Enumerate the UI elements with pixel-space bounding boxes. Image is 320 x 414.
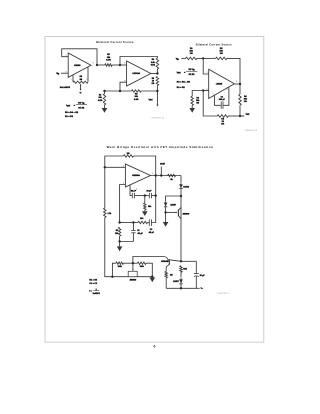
wire bottom rail right [141, 90, 157, 92]
capacitor C2 plates [150, 219, 152, 226]
wire R4 to IOUT node [239, 105, 241, 116]
svg-text:R1 R5: R1 R5 [189, 74, 196, 76]
svg-text:2: 2 [206, 72, 207, 74]
svg-text:1%: 1% [152, 83, 155, 85]
wire comp middle [135, 195, 149, 197]
svg-text:10M: 10M [183, 269, 187, 271]
wire left rail bottom [105, 218, 113, 277]
node A wein [132, 221, 134, 223]
wire wein bottom [120, 236, 134, 242]
resistor R3 to ground [191, 96, 194, 105]
node chain ground [151, 276, 153, 278]
svg-text:TL/H/7757–16: TL/H/7757–16 [245, 130, 259, 132]
balance pot R6 wires [72, 75, 74, 82]
arrow into pot box [132, 263, 134, 269]
svg-text:10 μF: 10 μF [200, 275, 206, 277]
wire node down to pin 2 [203, 58, 209, 74]
resistor R1 wein [118, 227, 121, 236]
ground arrow comp [142, 211, 148, 216]
svg-text:3: 3 [66, 72, 67, 74]
node inverting tap [104, 166, 106, 168]
wire VIN to A1 pin 3 [61, 72, 68, 74]
diode 1N457 clamp [164, 201, 168, 207]
svg-text:LM101A: LM101A [132, 72, 140, 75]
svg-text:TL/H/7757–17: TL/H/7757–17 [217, 293, 231, 295]
wire clamp diode to node [165, 207, 167, 212]
svg-text:C1 = C2: C1 = C2 [89, 283, 97, 285]
wire chain right corner [146, 263, 152, 277]
svg-text:1%: 1% [221, 124, 224, 126]
svg-text:100k: 100k [140, 266, 144, 268]
resistor 2k output [168, 174, 176, 177]
wire node to R2 [203, 57, 215, 59]
node bottom right [156, 90, 158, 92]
pot box 2N3819 [128, 271, 137, 276]
resistor 1M source [165, 272, 168, 278]
wire cap branch top [181, 260, 196, 262]
wire EOUT stub [160, 167, 162, 176]
wire to A2 pin 3 [120, 82, 127, 91]
svg-text:0.1%: 0.1% [106, 59, 111, 61]
svg-text:1N457: 1N457 [170, 204, 176, 207]
wire comp to output rail [152, 195, 156, 197]
svg-text:R3 = R4 + R5: R3 = R4 + R5 [65, 111, 79, 114]
node lower rectifier [180, 260, 182, 262]
resistor R2 wein [138, 221, 148, 224]
wire source resistor to rail [165, 278, 167, 289]
svg-text:.05 μF: .05 μF [137, 233, 143, 235]
svg-text:2N3819: 2N3819 [130, 279, 137, 281]
node chain middle [132, 262, 134, 264]
wire feedback loop A2 top [120, 57, 157, 66]
op-amp A4 LM108A [125, 164, 150, 187]
svg-text:8: 8 [136, 189, 137, 191]
svg-text:6: 6 [93, 62, 94, 64]
svg-text:6: 6 [152, 173, 153, 175]
wire gate of Q1 [166, 211, 177, 213]
arrow IOUT right [240, 115, 243, 117]
svg-text:1M: 1M [170, 275, 173, 277]
node non-inverting right [202, 89, 204, 91]
svg-text:R1 R5: R1 R5 [78, 107, 85, 109]
svg-text:1: 1 [71, 79, 72, 81]
wire R5 to bottom rail [156, 86, 158, 92]
wire R2 to right rail [227, 58, 240, 84]
node A2 inverting input [119, 64, 121, 66]
svg-text:C1: C1 [137, 230, 139, 232]
ground arrow chain [150, 277, 156, 282]
resistor R3 [105, 64, 112, 67]
wire wein series branch [152, 176, 156, 223]
node gate drive [164, 211, 166, 213]
wire IOUT down [156, 91, 158, 105]
wire bottom rail to R5 [228, 115, 240, 117]
svg-text:2: 2 [123, 166, 124, 168]
node comp middle [144, 194, 146, 196]
page border frame [45, 37, 264, 343]
resistor R5 output sense [156, 76, 159, 85]
svg-text:LM108: LM108 [74, 65, 81, 67]
svg-text:Wein Bridge Oscillator with FE: Wein Bridge Oscillator with FET Amplitud… [107, 145, 214, 149]
balance pot wiper arrow to V+ [80, 85, 82, 90]
ground arrow circuit2 [189, 108, 195, 113]
wire R2 to node A [133, 222, 138, 224]
svg-text:1%: 1% [244, 101, 247, 103]
node wein left [118, 221, 120, 223]
capacitor C1 wein branch [132, 223, 134, 231]
wire diode to V- rail [180, 284, 182, 289]
wire feedback loop A1 [62, 49, 97, 65]
transistor Q2 channel [168, 259, 170, 265]
node V- rail [180, 287, 182, 289]
svg-text:1M: 1M [79, 79, 82, 81]
wire gate node to ground [165, 212, 167, 222]
wire A3 output [234, 83, 240, 85]
svg-text:1%: 1% [196, 103, 199, 105]
resistor R4 feedback [156, 58, 159, 69]
wire R4 to output node [156, 69, 158, 74]
resistor 10k chain 1 [116, 262, 124, 265]
node EOUT tap [160, 174, 162, 176]
wire left rail middle [104, 167, 106, 208]
ground arrow wein [117, 246, 123, 251]
wire left rail top [105, 156, 124, 167]
svg-text:1N457: 1N457 [173, 280, 179, 283]
wire C2 to R2 [148, 222, 149, 224]
svg-text:30 pF: 30 pF [131, 191, 137, 193]
wire comp node to resistor [144, 196, 146, 203]
node IOUT [239, 115, 241, 117]
node R1 top [103, 90, 105, 92]
resistor 1.1k left rail [104, 208, 107, 218]
svg-text:.05 μF: .05 μF [148, 232, 154, 234]
wire V- rail [166, 287, 199, 289]
wire bottom rail left [203, 91, 217, 117]
wire R3 to A2 node [112, 64, 120, 66]
transistor Q1 2N3069 channel [177, 210, 179, 217]
capacitor comp 1 plates [130, 195, 132, 197]
wire chain middle [124, 262, 138, 264]
transistor Q1 leads [178, 207, 181, 210]
node wein ground [118, 240, 120, 242]
node non-inverting feedback [119, 90, 121, 92]
wire top to output rail [134, 156, 156, 176]
svg-text:TL/H/7757–15: TL/H/7757–15 [151, 117, 165, 119]
wire chain riser [112, 263, 116, 277]
wire R1 to node [197, 57, 203, 59]
op-amp A1 LM108 [68, 53, 91, 77]
wire 20k to ground [144, 210, 146, 211]
wire output to R4 [239, 84, 241, 94]
svg-text:Bilateral Current Source: Bilateral Current Source [96, 40, 134, 44]
node comp rail [155, 194, 157, 196]
wire rectifier branch left [166, 196, 181, 201]
resistor 10M [180, 266, 183, 273]
svg-text:R1: R1 [116, 230, 118, 232]
svg-text:2πR1C1: 2πR1C1 [93, 293, 100, 295]
node inverting input right [202, 57, 204, 59]
svg-text:C2: C2 [150, 229, 152, 231]
svg-text:6: 6 [154, 344, 156, 348]
wire bottom rail left [105, 90, 132, 92]
arrow IOUT [156, 105, 158, 107]
resistor R2 feedback [216, 57, 227, 60]
wire R1 to ground [104, 105, 106, 108]
svg-text:8: 8 [227, 89, 228, 91]
capacitor 10uF wires [195, 261, 197, 273]
compensation stub pin 1 [129, 185, 131, 196]
capacitor C1 plates [220, 101, 222, 108]
resistor 10k chain 2 [138, 262, 147, 265]
wire to pin 2 middle [105, 166, 126, 168]
svg-text:100k: 100k [118, 266, 122, 268]
wire A4 output [151, 175, 182, 177]
svg-text:1M: 1M [127, 153, 130, 155]
node A1 output [96, 64, 98, 66]
ground arrow circuit1 [102, 108, 108, 113]
transistor Q2 source lead [166, 264, 169, 271]
wire to pin 3 [203, 90, 209, 92]
diode 1N457 lower [179, 278, 183, 284]
op-amp A3 LM108 [209, 69, 235, 98]
wire R1 top stub [104, 91, 106, 94]
wire A1 out to R3 [97, 64, 105, 66]
wire node to A2 pin 2 [120, 64, 127, 66]
capacitor comp 2 plates [148, 193, 150, 198]
wire bottom chain [112, 276, 152, 278]
svg-text:0.1%: 0.1% [134, 99, 139, 101]
svg-text:6: 6 [236, 81, 237, 83]
node A2 output [156, 72, 158, 74]
svg-text:R1 = R2: R1 = R2 [65, 116, 74, 118]
capacitor C1 comp wires [214, 95, 221, 105]
svg-text:1%: 1% [190, 53, 193, 55]
wire to R3 [192, 91, 203, 97]
node rectifier [180, 195, 182, 197]
svg-text:2N3069: 2N3069 [161, 261, 168, 263]
resistor R1 input [186, 57, 197, 60]
svg-text:1%: 1% [220, 53, 223, 55]
capacitor 10uF plates [194, 273, 199, 275]
svg-text:R6: R6 [80, 76, 82, 78]
svg-text:R1 = R2: R1 = R2 [89, 280, 97, 282]
svg-text:2: 2 [66, 55, 67, 57]
svg-text:LM108: LM108 [216, 84, 223, 86]
resistor R5 bottom [217, 115, 228, 118]
wire wein node to ground [119, 242, 121, 247]
node chain junction [111, 276, 113, 278]
svg-text:1N456: 1N456 [183, 186, 189, 189]
resistor R4 output [239, 94, 242, 105]
svg-text:0.1%: 0.1% [151, 64, 156, 66]
wire pin 3 connection [120, 185, 126, 223]
op-amp A2 LM101A [127, 61, 151, 86]
svg-text:2: 2 [124, 63, 125, 65]
wire R3 to ground [191, 105, 193, 108]
wire node A to left [120, 222, 134, 224]
resistor 20k comp [144, 203, 147, 210]
diode 1N456 [179, 183, 183, 189]
svg-text:LM108A: LM108A [132, 174, 140, 177]
svg-text:Bilateral Current Source: Bilateral Current Source [196, 42, 232, 46]
wire main vertical to lower node [180, 196, 182, 261]
svg-text:2N3069: 2N3069 [183, 214, 190, 216]
node A3 output [239, 83, 241, 85]
resistor R2 bottom [132, 90, 142, 93]
node output rail junction [155, 174, 157, 176]
wire 10M to diode [180, 272, 182, 277]
svg-text:R1 = R2: R1 = R2 [177, 87, 186, 89]
svg-text:V−: V− [80, 92, 82, 94]
svg-text:BALANCE: BALANCE [60, 86, 71, 89]
ground arrow gate [163, 222, 169, 227]
wire gate riser [133, 257, 164, 264]
wire output corner down [180, 176, 182, 183]
balance pot R6 element [73, 81, 88, 83]
wire VIN to R1 [181, 57, 185, 59]
wire diode to node [180, 189, 182, 197]
transistor Q2 drain lead [169, 260, 181, 262]
wire gate hop to Q2 [164, 257, 169, 262]
svg-text:0.1%: 0.1% [98, 100, 103, 102]
svg-text:R3 = R4 + R5: R3 = R4 + R5 [177, 80, 191, 83]
svg-text:30 pF: 30 pF [147, 191, 153, 193]
svg-text:1: 1 [213, 94, 214, 96]
resistor R1 to ground [103, 94, 106, 105]
svg-text:5: 5 [86, 79, 87, 81]
resistor R3 feedback top [123, 155, 133, 158]
svg-text:300 pF: 300 pF [219, 99, 226, 101]
wire A2 out [151, 73, 158, 75]
